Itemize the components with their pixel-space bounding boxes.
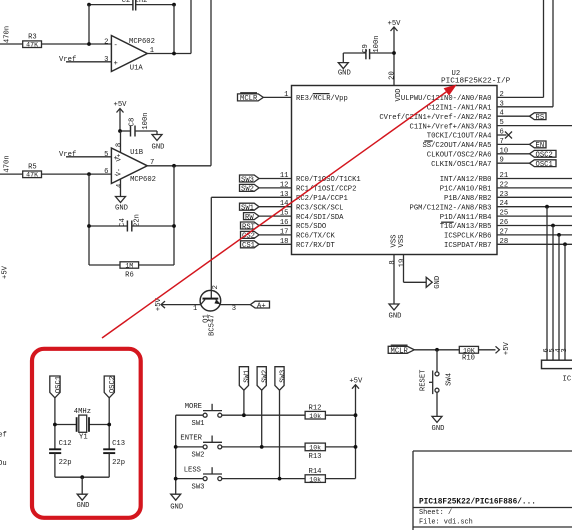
wire C2 right down to U1A output (173, 5, 175, 54)
wire R3 to U1A pin 2 (42, 43, 112, 45)
svg-text:RC7/RX/DT: RC7/RX/DT (296, 242, 336, 250)
pin 4 RA2 (379, 110, 529, 122)
svg-text:RC0/T1OSO/T1CK1: RC0/T1OSO/T1CK1 (296, 176, 361, 184)
node junction C4 right (172, 224, 176, 228)
svg-text:C8: C8 (129, 118, 137, 127)
capacitor C13 (103, 440, 125, 467)
svg-text:GND: GND (170, 504, 183, 512)
label SW2 (tag, vertical) (257, 367, 269, 391)
svg-text:17: 17 (280, 228, 289, 236)
pin 28 RB7 (444, 238, 572, 250)
node junction rail/LESS (174, 477, 178, 481)
svg-text:470n: 470n (4, 155, 12, 172)
node U1B output junction (172, 164, 176, 168)
power +5V (above C8) (114, 101, 128, 131)
svg-text:RESET: RESET (419, 369, 427, 391)
resistor R5 (23, 164, 42, 179)
node junction rail/R12 (354, 413, 358, 417)
wire feedback left rail (88, 174, 90, 265)
svg-text:U1B: U1B (130, 149, 144, 157)
op-amp U1B (104, 143, 156, 188)
pin 22 RB1 (440, 181, 572, 193)
svg-text:2: 2 (104, 38, 108, 46)
svg-text:SW3: SW3 (279, 370, 287, 383)
svg-text:2: 2 (212, 285, 220, 289)
node junction R5/feedback (87, 172, 91, 176)
node junction OSC1/crystal (53, 423, 57, 427)
node junction SW3 tag / LESS row (278, 477, 282, 481)
label MCLR (tag at pin 1) (238, 93, 264, 103)
pin 24 RB3 (410, 200, 572, 212)
red highlight box around crystal circuit (32, 349, 141, 518)
switch SW4 RESET (419, 369, 453, 394)
svg-text:5: 5 (104, 151, 108, 159)
svg-text:Sheet: /: Sheet: / (419, 509, 452, 517)
svg-text:SW3: SW3 (241, 176, 254, 184)
svg-text:ICSPCLK/RB6: ICSPCLK/RB6 (444, 233, 491, 241)
crystal Y1 4MHz (55, 408, 109, 442)
svg-text:GND: GND (338, 69, 351, 77)
ground (right of C8) (152, 135, 165, 152)
pin 10 RA6 (427, 147, 530, 159)
label CS2 (tag at pin 17) (241, 231, 260, 240)
wire U1A output (147, 53, 191, 55)
svg-text:ICSPDAT/RB7: ICSPDAT/RB7 (444, 242, 491, 250)
wire R6 row (89, 264, 174, 266)
node junction rail/ENTER (174, 445, 178, 449)
node junction rail/R13 (354, 445, 358, 449)
svg-text:IC: IC (563, 376, 572, 384)
wire pin 13 down to Q1 base (210, 197, 212, 298)
svg-text:PIC18F25K22/PIC16F886/...: PIC18F25K22/PIC16F886/... (419, 499, 536, 507)
node junction MCLR/R10/SW4 (435, 348, 439, 352)
svg-text:GND: GND (389, 313, 402, 321)
svg-text:CLKOUT/OSC2/RA6: CLKOUT/OSC2/RA6 (427, 152, 492, 160)
svg-text:GND: GND (432, 425, 445, 433)
svg-text:3: 3 (232, 305, 236, 313)
node junction OSC2/crystal (107, 423, 111, 427)
label OSC2 (tag, crystal) (104, 376, 117, 398)
svg-text:VSS: VSS (398, 235, 406, 248)
label SW1 (tag, vertical) (239, 367, 251, 391)
svg-text:1: 1 (193, 305, 197, 313)
pin 26 RB5 (440, 219, 572, 231)
wire C9 row (343, 53, 394, 63)
svg-text:SW2: SW2 (192, 452, 205, 460)
svg-text:OSC1: OSC1 (55, 376, 63, 393)
pin 14 (259, 200, 343, 212)
svg-text:A+: A+ (257, 302, 266, 310)
switch SW3 LESS (184, 466, 222, 491)
svg-text:RC2/P1A/CCP1: RC2/P1A/CCP1 (296, 195, 348, 203)
svg-text:T0CKI/C1OUT/RA4: T0CKI/C1OUT/RA4 (427, 133, 492, 141)
pin 5 RA3 (410, 119, 572, 131)
ground (pin 19, rotated right) (426, 276, 442, 289)
power +5V (above C9) (388, 20, 402, 86)
svg-text:SW2: SW2 (262, 370, 270, 383)
wire MORE row (176, 414, 305, 416)
ground (crystal) (77, 477, 90, 510)
svg-text:SS/C2OUT/AN4/RA5: SS/C2OUT/AN4/RA5 (422, 142, 491, 150)
label OSC1 (tag) (530, 160, 557, 169)
svg-text:SW4: SW4 (446, 373, 454, 386)
pin 12 (259, 181, 356, 193)
svg-text:RW: RW (245, 214, 254, 222)
label SW3 (tag at pin 11) (240, 175, 260, 184)
label SW3 (tag, vertical) (275, 367, 287, 391)
capacitor C9 (362, 35, 381, 59)
power +5V (R10, rotated right) (496, 341, 511, 355)
svg-text:18: 18 (280, 238, 289, 246)
node junction SW2 tag / ENTER row (260, 445, 264, 449)
resistor R3 (23, 34, 42, 49)
capacitor C8 (129, 112, 151, 136)
svg-text:8: 8 (389, 260, 397, 264)
svg-text:R13: R13 (309, 453, 322, 461)
svg-text:CLKIN/OSC1/RA7: CLKIN/OSC1/RA7 (431, 161, 491, 169)
svg-text:CS1: CS1 (242, 242, 255, 250)
resistor R6 (120, 262, 139, 280)
switch SW1 MORE (185, 403, 222, 428)
svg-text:LESS: LESS (184, 466, 201, 474)
svg-text:U1A: U1A (130, 65, 144, 73)
svg-text:C1IN+/Vref+/AN3/RA3: C1IN+/Vref+/AN3/RA3 (410, 123, 492, 131)
svg-text:R10: R10 (462, 355, 475, 363)
power +5V (pull-up rail) (349, 378, 363, 479)
IC U2 PIC18F25K22 body (292, 70, 511, 255)
svg-text:File: vdi.sch: File: vdi.sch (419, 519, 473, 527)
svg-text:SW3: SW3 (192, 483, 205, 491)
label A+ (tag) (250, 301, 269, 310)
svg-text:11: 11 (280, 172, 289, 180)
svg-text:MCLR: MCLR (240, 95, 258, 103)
wire U1B output up to top edge (210, 0, 212, 166)
capacitor C2 (feedback cap over U1A, clipped at top) (122, 0, 148, 10)
wire C2 left down to R3 row (88, 5, 90, 44)
resistor R13 (305, 443, 355, 461)
svg-text:C12IN1-/AN1/RA1: C12IN1-/AN1/RA1 (427, 105, 492, 113)
power +5V (Q1 collector, rotated left) (155, 297, 201, 311)
svg-text:1M: 1M (125, 262, 133, 269)
wire MCLR to pin 1 (263, 96, 291, 98)
svg-text:BC547: BC547 (208, 314, 216, 336)
pin 21 RB0 (440, 172, 572, 184)
wire U1A output up to top edge (190, 0, 192, 54)
svg-text:OSC1: OSC1 (536, 161, 553, 169)
capacitor C12 (49, 440, 71, 467)
svg-text:8: 8 (116, 143, 124, 147)
svg-text:P1D/AN11/RB4: P1D/AN11/RB4 (440, 214, 492, 222)
svg-text:10k: 10k (309, 445, 321, 452)
resistor R12 (305, 404, 355, 420)
pin 27 RB6 (444, 228, 572, 240)
svg-text:+: + (114, 60, 118, 68)
wire into R5 (0, 173, 23, 175)
pin 17 (259, 228, 336, 240)
ground (left of C9) (338, 63, 351, 78)
wire U1B output (147, 165, 211, 167)
wire MCLR row (414, 349, 495, 351)
svg-text:RE3/MCLR/Vpp: RE3/MCLR/Vpp (296, 95, 348, 103)
wire Q1 emitter to A+ (220, 304, 250, 306)
svg-text:MCP602: MCP602 (129, 38, 155, 46)
wire U1B pin 4 stem (120, 179, 122, 197)
svg-text:10k: 10k (309, 476, 321, 483)
pin 23 RB2 (444, 191, 572, 203)
svg-text:V+: V+ (116, 154, 123, 162)
pin 2 RA0 (401, 0, 544, 103)
svg-text:1: 1 (284, 91, 288, 99)
svg-text:GND: GND (115, 205, 128, 213)
label EN (tag) (530, 141, 547, 150)
node junction R3/C2 (87, 42, 91, 46)
label SW2 (tag at pin 12) (240, 184, 260, 193)
wire C4 row (89, 225, 174, 227)
wire pin 24 down to connector (546, 207, 548, 361)
switch SW2 ENTER (180, 435, 222, 460)
wire C2 row (89, 4, 174, 6)
node junction C9/+5V (392, 51, 396, 55)
wire U1B pin 8 stem (120, 131, 122, 153)
wire MCLR down to SW4 (436, 350, 438, 372)
svg-text:ENTER: ENTER (180, 435, 202, 443)
svg-text:V-: V- (116, 168, 123, 176)
node junction crystal ground (80, 475, 84, 479)
svg-text:RC5/SDO: RC5/SDO (296, 223, 326, 231)
svg-text:P1C/AN10/RB1: P1C/AN10/RB1 (440, 186, 492, 194)
wire R5 to U1B pin 6 (42, 173, 112, 175)
pin 18 (259, 238, 336, 250)
wire pin 26 down to connector (552, 226, 554, 361)
wire feedback right rail (173, 166, 175, 265)
wire SW2 tag down (261, 390, 263, 447)
svg-text:16: 16 (280, 219, 289, 227)
pin 8 VSS (389, 235, 399, 304)
svg-text:22n: 22n (134, 214, 142, 227)
svg-text:100n: 100n (142, 112, 150, 129)
svg-text:+5V: +5V (114, 101, 128, 109)
transistor Q1 BC547 (193, 285, 236, 336)
pin 11 (259, 172, 361, 184)
svg-text:47K: 47K (26, 42, 38, 49)
svg-text:12: 12 (280, 181, 289, 189)
svg-text:MCP602: MCP602 (130, 176, 156, 184)
op-amp U1A (104, 36, 155, 73)
svg-text:SW1: SW1 (244, 370, 252, 383)
svg-text:GND: GND (152, 144, 165, 152)
pin 3 RA1 (427, 0, 553, 113)
label RST (tag at pin 16) (241, 222, 260, 231)
svg-text:RC4/SDI/SDA: RC4/SDI/SDA (296, 214, 344, 222)
ground (SW4) (432, 416, 445, 433)
red annotation arrow to PIC18F25K22 (102, 84, 457, 338)
svg-text:SW1: SW1 (241, 205, 254, 213)
svg-text:OSC2: OSC2 (536, 152, 553, 160)
wire switches left rail (175, 415, 177, 494)
svg-text:T1G/AN13/RB5: T1G/AN13/RB5 (440, 223, 492, 231)
svg-text:R6: R6 (125, 272, 134, 280)
svg-text:13: 13 (280, 191, 289, 199)
pin 1 (284, 91, 348, 103)
svg-text:ULPWU/C12IN0-/AN0/RA0: ULPWU/C12IN0-/AN0/RA0 (401, 95, 492, 103)
pin 19 VSS (398, 235, 426, 283)
svg-text:Vref: Vref (59, 56, 76, 64)
svg-text:+5V: +5V (2, 265, 10, 279)
label MCLR (tag, reset circuit) (388, 345, 414, 355)
svg-text:47K: 47K (26, 172, 38, 179)
pin 6 RA4 (no connect) (427, 129, 512, 141)
svg-text:3: 3 (561, 348, 569, 352)
node junction SW1 tag / MORE row (242, 413, 246, 417)
svg-text:P1B/AN8/RB2: P1B/AN8/RB2 (444, 195, 491, 203)
pin 16 (259, 219, 326, 231)
svg-text:22p: 22p (112, 459, 125, 467)
node junction left of C2 (87, 3, 91, 7)
wire pin 27 down to connector (558, 235, 560, 360)
ground (switch rail) (170, 494, 183, 511)
ground (U1B pin 4) (115, 197, 128, 213)
ground (pin 8) (389, 304, 402, 321)
wire SW1 tag down (243, 390, 245, 415)
label RW (tag at pin 15) (244, 213, 260, 222)
label OSC2 (tag) (530, 150, 557, 159)
wire SW3 tag down (279, 390, 281, 478)
resistor R10 (459, 346, 478, 362)
svg-text:SW2: SW2 (241, 186, 254, 194)
svg-text:-: - (114, 42, 118, 50)
wire C12 down and across (55, 453, 109, 477)
svg-text:6: 6 (104, 168, 108, 176)
wire OSC2 down (108, 398, 110, 449)
svg-text:20: 20 (388, 71, 396, 80)
wire Vref to U1B pin 5 (66, 156, 111, 158)
capacitor C4 (119, 214, 142, 231)
svg-text:RC3/SCK/SCL: RC3/SCK/SCL (296, 204, 343, 212)
svg-text:SW1: SW1 (192, 420, 205, 428)
svg-text:RC6/TX/CK: RC6/TX/CK (296, 233, 336, 241)
svg-text:Ou: Ou (0, 460, 7, 468)
svg-text:PGM/C12IN2-/AN8/RB3: PGM/C12IN2-/AN8/RB3 (410, 204, 492, 212)
svg-text:INT/AN12/RB0: INT/AN12/RB0 (440, 176, 492, 184)
svg-text:Vref: Vref (0, 432, 7, 440)
svg-text:GND: GND (77, 502, 90, 510)
node U1A output junction (172, 52, 176, 56)
svg-text:10k: 10k (309, 413, 321, 420)
pin 15 (259, 210, 344, 222)
node junction C4 left (87, 224, 91, 228)
wire into R3 (0, 43, 23, 45)
svg-text:4: 4 (116, 184, 124, 188)
resistor R14 (305, 468, 355, 483)
svg-text:EN: EN (536, 142, 545, 150)
wire pin 28 down to connector (564, 244, 566, 360)
svg-text:C13: C13 (112, 440, 125, 448)
svg-text:CVref/C2IN1+/Vref-/AN2/RA2: CVref/C2IN1+/Vref-/AN2/RA2 (379, 114, 491, 122)
label RS (tag) (530, 113, 547, 122)
svg-text:OSC2: OSC2 (109, 376, 117, 393)
svg-text:3: 3 (104, 56, 108, 64)
label SW1 (tag at pin 14) (240, 203, 260, 212)
svg-text:C12: C12 (59, 440, 72, 448)
svg-text:19: 19 (398, 259, 406, 268)
svg-text:100n: 100n (373, 35, 381, 52)
svg-text:Y1: Y1 (79, 434, 88, 442)
node junction +5V/C8/pin8 (118, 129, 122, 133)
pin 25 RB4 (440, 210, 572, 222)
pin 9 RA7 (431, 157, 529, 169)
wire LESS row (176, 478, 305, 480)
wire C8 row (120, 131, 157, 135)
pin 7 RA5 (422, 138, 529, 150)
svg-text:Vref: Vref (59, 151, 76, 159)
pin 20 VDD (388, 71, 403, 101)
wire Vref to U1A pin 3 (66, 61, 111, 63)
title block (413, 451, 572, 530)
label CS1 (tag at pin 18) (241, 241, 260, 250)
wire SW4 down to ground (436, 392, 438, 416)
svg-text:MORE: MORE (185, 403, 202, 411)
svg-text:22p: 22p (59, 459, 72, 467)
svg-text:+5V: +5V (503, 341, 511, 355)
svg-text:GND: GND (434, 276, 442, 289)
svg-text:RS: RS (536, 114, 545, 122)
svg-text:470n: 470n (4, 26, 12, 43)
label OSC1 (tag, crystal) (50, 376, 63, 398)
node junction right of C2 (172, 3, 176, 7)
wire ENTER row (176, 446, 305, 448)
svg-text:PIC18F25K22-I/P: PIC18F25K22-I/P (441, 78, 511, 86)
connector ICSP (clipped at right edge) (542, 348, 572, 383)
pin 13 (211, 191, 347, 203)
wire OSC1 down (54, 398, 56, 449)
svg-text:10K: 10K (463, 348, 475, 355)
svg-text:MCLR: MCLR (391, 348, 409, 356)
